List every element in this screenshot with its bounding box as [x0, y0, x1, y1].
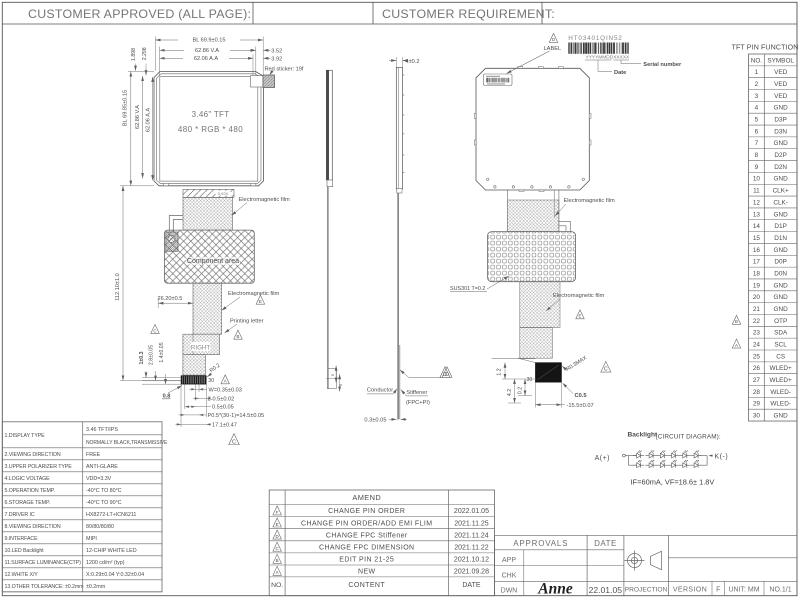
front view red sticker (hatched)	[263, 75, 275, 88]
svg-text:VED: VED	[774, 93, 788, 100]
svg-text:28: 28	[753, 389, 761, 396]
svg-text:Electromagnetic film: Electromagnetic film	[239, 197, 290, 203]
svg-text:1.DISPLAY TYPE: 1.DISPLAY TYPE	[5, 433, 46, 439]
side view right tail conductor line	[397, 193, 399, 420]
triangle B printing letter	[234, 330, 243, 339]
svg-text:13: 13	[753, 211, 761, 218]
svg-text:WLED-: WLED-	[770, 389, 791, 396]
svg-text:GND: GND	[774, 140, 789, 147]
svg-text:D2N: D2N	[774, 164, 787, 171]
dimension 112.10+-1.0 vertical	[122, 186, 124, 381]
front FPC connector (black bar with pins)	[181, 376, 206, 385]
svg-text:C: C	[604, 367, 608, 373]
triangle C bottom center	[229, 434, 240, 445]
svg-text:D: D	[276, 534, 279, 539]
front view outer outline	[154, 72, 264, 186]
svg-text:4.2: 4.2	[507, 389, 513, 396]
amend row 6 NEW	[273, 566, 282, 575]
svg-text:D0N: D0N	[774, 270, 787, 277]
svg-text:AMEND: AMEND	[352, 493, 381, 502]
svg-text:±0.2mm: ±0.2mm	[86, 584, 106, 590]
dimension W=0.35+-0.03	[189, 388, 207, 390]
svg-text:SUS301 T=0.2: SUS301 T=0.2	[450, 286, 485, 292]
back tail hook wire inner	[559, 226, 566, 232]
dimension 62.06 A.A vertical	[152, 77, 154, 180]
ext line left bottom	[120, 185, 154, 187]
svg-text:Backlight: Backlight	[628, 431, 658, 438]
svg-text:8.VIEWING DIRECTION: 8.VIEWING DIRECTION	[5, 524, 61, 530]
svg-text:15: 15	[753, 235, 761, 242]
svg-text:20: 20	[753, 294, 761, 301]
svg-text:CLK-: CLK-	[773, 199, 788, 206]
LED D11	[679, 460, 690, 468]
svg-text:D3N: D3N	[774, 128, 787, 135]
dimension 17.1+-0.47	[176, 423, 212, 425]
front FPC exit strip tiny label 0.02X	[216, 191, 231, 196]
triangle C back connector	[601, 361, 611, 372]
svg-text:14: 14	[753, 223, 761, 230]
LED D12	[690, 460, 701, 468]
svg-text:CUSTOMER APPROVED (ALL PAGE: CUSTOMER APPROVED (ALL PAGE):	[28, 7, 251, 21]
label leader to box	[507, 51, 550, 74]
svg-text:3.92: 3.92	[271, 56, 282, 62]
svg-text:Electromagnetic film: Electromagnetic film	[228, 291, 279, 297]
dimension 62.06 A.A top	[160, 57, 254, 59]
header cell divider 2	[372, 2, 374, 24]
svg-text:Serial number: Serial number	[643, 62, 682, 68]
svg-text:2-0.5±0.02: 2-0.5±0.02	[208, 396, 235, 402]
svg-text:K(-): K(-)	[715, 454, 729, 461]
triangle D back left	[440, 367, 450, 378]
amend row 3 CHANGE FPC Stiffen	[273, 530, 282, 539]
svg-text:26.20±0.5: 26.20±0.5	[158, 296, 183, 302]
svg-text:YYYYMMDDXXXXX: YYYYMMDDXXXXX	[586, 54, 631, 60]
LED D2	[645, 450, 656, 458]
back view outline	[476, 68, 589, 190]
amend row 5 EDIT PIN 21-25	[273, 554, 282, 563]
svg-text:LABEL: LABEL	[544, 46, 562, 52]
ext line top left	[154, 37, 156, 71]
svg-text:APPROVALS: APPROVALS	[513, 539, 568, 548]
svg-text:0.3±0.05: 0.3±0.05	[364, 418, 386, 424]
svg-text:DATE: DATE	[462, 582, 480, 589]
front FPC mid tail (EMI film)	[193, 283, 222, 334]
svg-text:X:0.29±0.04 Y:0.32±0.04: X:0.29±0.04 Y:0.32±0.04	[86, 572, 144, 578]
triangle D LABEL	[549, 33, 558, 42]
svg-text:B: B	[735, 319, 738, 324]
svg-text:(CIRCUIT DIAGRAM):: (CIRCUIT DIAGRAM):	[656, 434, 721, 441]
svg-text:WLED-: WLED-	[770, 401, 791, 408]
dimension P0.5*(30-1)=14.5+-0.05	[179, 414, 207, 416]
svg-text:E: E	[259, 299, 262, 304]
svg-text:0.02X: 0.02X	[218, 191, 229, 196]
back tail transition lines	[492, 358, 536, 360]
svg-text:-15.5±0.07: -15.5±0.07	[567, 403, 594, 409]
svg-text:1.2: 1.2	[497, 368, 503, 375]
svg-text:A: A	[276, 570, 279, 575]
ext line VA left	[159, 47, 161, 77]
svg-text:9: 9	[755, 164, 759, 171]
svg-text:24: 24	[753, 342, 761, 349]
dimension 0.5+-0.05	[185, 406, 211, 408]
backlight wire bus	[625, 455, 636, 457]
svg-text:2021.11.25: 2021.11.25	[454, 520, 489, 527]
side view right dim 4+-0.2	[395, 57, 397, 68]
svg-text:29: 29	[753, 401, 761, 408]
svg-text:19: 19	[753, 282, 761, 289]
svg-text:3.52: 3.52	[271, 48, 282, 54]
svg-text:2: 2	[755, 81, 759, 88]
svg-text:1.4±0.05: 1.4±0.05	[159, 342, 165, 362]
svg-text:VED: VED	[774, 81, 788, 88]
svg-text:Anne: Anne	[537, 581, 573, 598]
front component area label	[186, 257, 240, 265]
svg-text:10: 10	[753, 176, 761, 183]
svg-text:EDIT PIN 21-25: EDIT PIN 21-25	[339, 557, 394, 564]
svg-text:9.INTERFACE: 9.INTERFACE	[5, 536, 39, 542]
svg-text:F: F	[716, 587, 720, 594]
svg-text:13.OTHER TOLERANCE: ±0.2mm: 13.OTHER TOLERANCE: ±0.2mm	[5, 584, 85, 590]
svg-text:SCL: SCL	[774, 342, 787, 349]
svg-text:CHANGE FPC DIMENSION: CHANGE FPC DIMENSION	[319, 544, 415, 551]
svg-text:NO.: NO.	[751, 57, 763, 64]
svg-text:62.86 V.A: 62.86 V.A	[195, 48, 219, 54]
back view bottom edge marks	[519, 190, 524, 191]
svg-text:WLED+: WLED+	[770, 365, 792, 372]
svg-text:0.8: 0.8	[163, 393, 171, 399]
svg-text:CHANGE PIN ORDER/ADD EMI F: CHANGE PIN ORDER/ADD EMI FLIM	[301, 520, 432, 527]
svg-text:D3P: D3P	[774, 117, 786, 124]
side view left back line	[331, 70, 333, 180]
side view right foot	[397, 189, 402, 194]
svg-text:3.UPPER POLARIZER TYPE: 3.UPPER POLARIZER TYPE	[5, 464, 73, 470]
ext line 112 bottom	[120, 380, 181, 382]
spec table grid	[2, 422, 162, 592]
svg-text:4: 4	[755, 105, 759, 112]
header cell divider 1	[252, 2, 254, 24]
svg-text:NO.1/1: NO.1/1	[769, 587, 791, 594]
front view red sticker notch (white)	[250, 76, 263, 87]
cathode arrow and label K(-)	[709, 454, 713, 456]
side view left connector dim 1	[335, 366, 337, 383]
svg-text:CONTENT: CONTENT	[348, 582, 385, 589]
back tail EMI film region	[507, 200, 559, 232]
side view left connector dim 2	[339, 374, 341, 391]
side view left foot	[327, 180, 333, 187]
svg-text:A(+): A(+)	[595, 455, 610, 462]
svg-text:GND: GND	[774, 282, 789, 289]
svg-text:2.298: 2.298	[142, 47, 148, 60]
svg-text:B: B	[276, 558, 279, 563]
svg-text:0.2: 0.2	[518, 387, 524, 394]
LED D3	[657, 450, 668, 458]
svg-text:4.LOGIC VOLTAGE: 4.LOGIC VOLTAGE	[5, 476, 51, 482]
ext lines below connector	[180, 384, 182, 427]
back lower tail EMI upper part	[520, 282, 560, 328]
dimension 62.86 V.A vertical	[142, 76, 144, 178]
back lower tail EMI lower part	[520, 328, 553, 359]
svg-text:5: 5	[755, 117, 759, 124]
svg-text:2021.09.28: 2021.09.28	[454, 569, 489, 576]
svg-text:BL 69.9±0.15: BL 69.9±0.15	[192, 38, 225, 44]
side view left connector outline	[328, 368, 337, 388]
svg-text:Printing letter: Printing letter	[230, 318, 264, 324]
dimension BL 69.9+-0.15	[155, 39, 263, 41]
anode terminal circle	[623, 454, 626, 457]
svg-text:3.46" TFT: 3.46" TFT	[192, 110, 230, 119]
svg-text:1200 cd/m² (typ): 1200 cd/m² (typ)	[86, 560, 125, 566]
svg-text:CLK+: CLK+	[773, 188, 789, 195]
svg-text:Component area: Component area	[187, 258, 239, 265]
small vertical dim arrows left connector	[145, 371, 147, 378]
front tail RIGHT label	[191, 342, 211, 351]
svg-text:11.SURFACE LUMINANCE(CTP): 11.SURFACE LUMINANCE(CTP)	[5, 560, 82, 566]
triangle A front connector	[221, 375, 230, 384]
front small component (dense hatch)	[166, 232, 178, 251]
svg-text:2021.11.24: 2021.11.24	[454, 532, 489, 539]
date bracket	[585, 59, 612, 61]
serial number bracket	[614, 59, 630, 61]
LED D4	[668, 450, 679, 458]
svg-text:D1P: D1P	[774, 223, 786, 230]
svg-text:HT03401QIN52: HT03401QIN52	[568, 35, 622, 42]
svg-text:ANTI-GLARE: ANTI-GLARE	[86, 464, 118, 470]
triangle E back tail	[576, 310, 585, 319]
back view right edge tabs	[589, 113, 591, 118]
svg-text:E: E	[579, 314, 582, 319]
svg-text:1.898: 1.898	[131, 48, 137, 61]
svg-text:(FPC+PI): (FPC+PI)	[406, 400, 430, 406]
svg-text:GND: GND	[774, 294, 789, 301]
side view right body	[396, 68, 402, 190]
svg-text:7.DRIVER IC: 7.DRIVER IC	[5, 512, 35, 518]
back tail hook wire outer	[559, 222, 571, 232]
svg-text:10.LED Backlight: 10.LED Backlight	[5, 548, 45, 554]
svg-text:MIPI: MIPI	[86, 536, 97, 542]
svg-text:1±0.3: 1±0.3	[139, 351, 145, 364]
LED D5	[679, 450, 690, 458]
svg-text:PROJECTION: PROJECTION	[625, 587, 668, 594]
svg-text:2.8±0.05: 2.8±0.05	[148, 345, 154, 365]
svg-text:GND: GND	[774, 247, 789, 254]
amend row 2 CHANGE PIN ORDER/A	[273, 518, 282, 527]
svg-text:TFT PIN FUNCTION: TFT PIN FUNCTION	[732, 43, 799, 51]
svg-text:A: A	[735, 343, 738, 348]
svg-text:2.VIEWING DIRECTION: 2.VIEWING DIRECTION	[5, 452, 61, 458]
dimension 3.52	[251, 49, 256, 51]
svg-text:6.STORAGE TEMP.: 6.STORAGE TEMP.	[5, 500, 51, 506]
side view left glass (dark)	[326, 70, 329, 180]
LED D1	[633, 450, 644, 458]
svg-text:D1N: D1N	[774, 235, 787, 242]
svg-text:12.WHITE X/Y: 12.WHITE X/Y	[5, 572, 39, 578]
side view right tail stiffener line	[399, 345, 401, 419]
front view inner bezel outline	[157, 74, 262, 184]
back view left edge tabs	[474, 113, 476, 118]
svg-text:27: 27	[753, 377, 761, 384]
svg-text:80/80/80/80: 80/80/80/80	[86, 524, 114, 530]
svg-text:GND: GND	[774, 105, 789, 112]
projection symbol	[625, 551, 662, 571]
ext line left top	[128, 71, 154, 73]
svg-text:Conductor: Conductor	[367, 387, 393, 393]
svg-text:GND: GND	[774, 211, 789, 218]
dimension 15.5+-0.07	[534, 382, 536, 407]
pin table grid	[749, 54, 798, 421]
amend table grid	[269, 490, 494, 596]
svg-text:GND: GND	[774, 306, 789, 313]
svg-text:GND: GND	[774, 413, 789, 420]
dimension 3.92	[248, 57, 253, 59]
svg-text:CHK: CHK	[502, 573, 517, 580]
side view left tail line	[327, 187, 329, 389]
triangle B pin 22	[732, 315, 741, 324]
triangle C left dims	[151, 324, 160, 333]
svg-text:DATE: DATE	[594, 539, 617, 548]
svg-text:VED: VED	[774, 69, 788, 76]
ext line VA right	[255, 47, 257, 76]
svg-text:CHANGE PIN ORDER: CHANGE PIN ORDER	[328, 508, 405, 515]
svg-text:D0P: D0P	[774, 259, 786, 266]
side view left top cap	[326, 69, 332, 71]
amend row 4 CHANGE FPC DIMENSI	[273, 542, 282, 551]
svg-text:12: 12	[753, 199, 761, 206]
svg-text:4±0.2: 4±0.2	[406, 59, 420, 65]
back view top edge tabs	[518, 67, 523, 69]
header cell divider 3	[541, 2, 543, 24]
svg-text:NEW: NEW	[358, 569, 376, 576]
svg-text:18: 18	[753, 270, 761, 277]
svg-text:E: E	[276, 522, 279, 527]
svg-text:25: 25	[753, 353, 761, 360]
svg-text:62.06 A.A: 62.06 A.A	[194, 56, 219, 62]
svg-text:BL 69.85±0.15: BL 69.85±0.15	[123, 90, 129, 126]
front FPC hook wire inner	[173, 220, 183, 233]
svg-text:Date: Date	[614, 70, 626, 76]
svg-text:22: 22	[753, 318, 761, 325]
LED D10	[668, 460, 679, 468]
dimension 62.86 V.A top	[160, 49, 256, 51]
ext lines left of connector	[142, 377, 181, 379]
svg-text:7: 7	[755, 140, 759, 147]
dimension BL 69.85 vertical	[130, 72, 132, 186]
svg-text:3: 3	[755, 93, 759, 100]
svg-text:CS: CS	[776, 353, 785, 360]
svg-text:NORMALLY BLACK,TRANSMISSIVE: NORMALLY BLACK,TRANSMISSIVE	[86, 440, 168, 446]
svg-text:F: F	[276, 510, 279, 515]
LED D8	[645, 460, 656, 468]
ext line top right	[262, 37, 264, 75]
svg-text:Stiffener: Stiffener	[406, 390, 427, 396]
svg-text:IF=60mA, VF=18.6± 1.8V: IF=60mA, VF=18.6± 1.8V	[631, 478, 715, 487]
front view active area rect	[160, 77, 258, 182]
svg-text:2021.10.12: 2021.10.12	[454, 557, 489, 564]
svg-text:P0.5*(30-1)=14.5±0.05: P0.5*(30-1)=14.5±0.05	[208, 413, 265, 419]
front FPC wide tail section	[183, 334, 220, 355]
svg-text:11: 11	[753, 188, 760, 195]
dimension 2-0.5+-0.02	[193, 397, 206, 399]
svg-text:26: 26	[753, 365, 761, 372]
back view bottom screw holes	[494, 186, 496, 188]
svg-text:Red sticker: 19f: Red sticker: 19f	[265, 66, 304, 72]
front FPC narrow tail section	[183, 355, 205, 375]
svg-text:VDD=3.3V: VDD=3.3V	[86, 476, 112, 482]
LED D9	[657, 460, 668, 468]
svg-text:12-CHIP WHITE LED: 12-CHIP WHITE LED	[86, 548, 137, 554]
svg-text:C: C	[232, 439, 236, 445]
svg-text:D: D	[552, 37, 555, 42]
svg-text:6: 6	[755, 128, 759, 135]
svg-text:HX8272-LT+ICN6211: HX8272-LT+ICN6211	[86, 512, 136, 518]
svg-text:NO.: NO.	[271, 582, 283, 589]
svg-text:W=0.35±0.03: W=0.35±0.03	[209, 387, 242, 393]
svg-text:VERSION: VERSION	[673, 587, 707, 594]
back connector block (black)	[535, 363, 561, 383]
svg-text:30: 30	[753, 413, 761, 420]
back view label box	[484, 74, 513, 86]
svg-text:8: 8	[755, 152, 759, 159]
LED D7	[633, 460, 644, 468]
svg-text:22.01.05: 22.01.05	[589, 585, 623, 595]
svg-text:0.5±0.05: 0.5±0.05	[212, 405, 234, 411]
svg-text:30: 30	[527, 377, 533, 383]
svg-text:62.06 A.A: 62.06 A.A	[145, 108, 151, 133]
triangle E mid tail	[256, 295, 265, 304]
front view bottom-left edge mark	[164, 183, 169, 185]
svg-text:OTP: OTP	[774, 318, 787, 325]
amend row 1 CHANGE PIN ORDER	[273, 506, 282, 515]
svg-text:APP: APP	[502, 557, 516, 564]
svg-text:DWN: DWN	[501, 588, 518, 595]
svg-text:3.46 TFT/IPS: 3.46 TFT/IPS	[86, 427, 118, 433]
svg-text:B: B	[237, 334, 240, 339]
svg-text:CHANGE FPC Stiffener: CHANGE FPC Stiffener	[326, 532, 408, 539]
ext line AA right	[252, 55, 254, 76]
svg-text:1: 1	[755, 69, 759, 76]
svg-text:CUSTOMER REQUIREMENT:: CUSTOMER REQUIREMENT:	[382, 7, 555, 21]
svg-text:2022.01.05: 2022.01.05	[454, 508, 489, 515]
barcode	[568, 43, 569, 54]
svg-text:SYMBOL: SYMBOL	[767, 57, 794, 64]
side view right tape ticks	[403, 74, 405, 76]
svg-text:17.1±0.47: 17.1±0.47	[212, 422, 237, 428]
svg-text:D2P: D2P	[774, 152, 786, 159]
svg-text:Electromagnetic film: Electromagnetic film	[553, 293, 604, 299]
svg-text:480 * RGB * 480: 480 * RGB * 480	[178, 125, 243, 134]
LED D6	[690, 450, 701, 458]
svg-text:GND: GND	[774, 176, 789, 183]
svg-text:A: A	[224, 379, 227, 384]
front FPC upper tail (EMI film)	[183, 197, 233, 230]
svg-text:2021.11.22: 2021.11.22	[454, 544, 489, 551]
svg-text:30: 30	[208, 378, 214, 384]
svg-text:WLED+: WLED+	[770, 377, 792, 384]
front component area (cross hatch)	[165, 230, 255, 283]
svg-text:UNIT: MM: UNIT: MM	[728, 587, 759, 594]
triangle A pin 24	[732, 339, 741, 348]
svg-text:FREE: FREE	[86, 452, 101, 458]
front FPC hook wire outer	[169, 216, 183, 233]
svg-text:-40°C TO 90°C: -40°C TO 90°C	[86, 500, 122, 506]
back tail edges	[506, 190, 508, 232]
triangle D side view	[442, 367, 452, 378]
front FPC exit strip (diagonal hatch)	[183, 189, 234, 197]
svg-text:21: 21	[753, 306, 761, 313]
svg-text:D: D	[443, 372, 447, 378]
svg-text:RIGHT: RIGHT	[191, 345, 210, 352]
svg-text:Electromagnetic film: Electromagnetic film	[564, 198, 615, 204]
svg-text:62.86 V.A: 62.86 V.A	[135, 105, 141, 129]
